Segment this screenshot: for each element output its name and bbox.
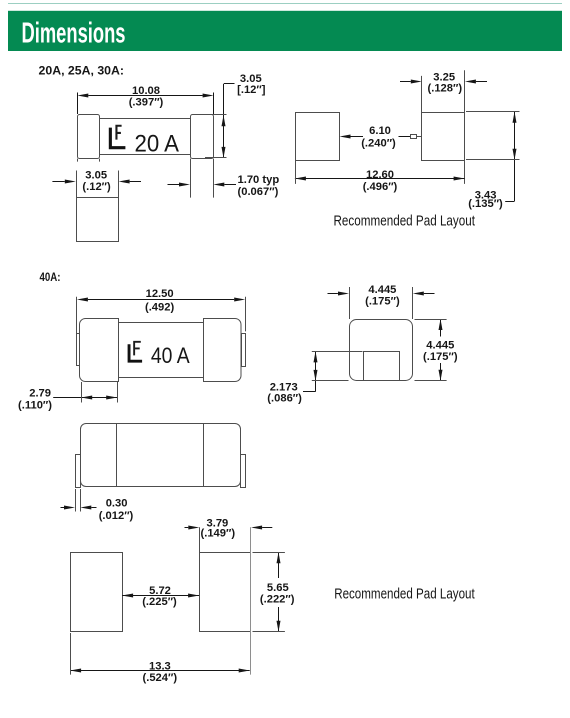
logo LF on 40A fuse bbox=[128, 341, 143, 363]
dimension 3.43 vertical bbox=[505, 112, 516, 202]
side view left tab bbox=[76, 455, 81, 488]
green title bar bbox=[8, 11, 562, 51]
svg-text:5.65: 5.65 bbox=[267, 582, 289, 594]
svg-text:(.524″): (.524″) bbox=[143, 672, 178, 684]
dimension 10.08 (.397) line bbox=[77, 94, 213, 98]
svg-text:2.173: 2.173 bbox=[270, 381, 298, 393]
svg-text:Recommended Pad Layout: Recommended Pad Layout bbox=[334, 586, 475, 603]
svg-text:[.12″]: [.12″] bbox=[237, 84, 266, 96]
svg-text:0.30: 0.30 bbox=[106, 498, 128, 510]
extension lines for 3.43 bbox=[466, 111, 520, 113]
svg-text:2.79: 2.79 bbox=[29, 388, 51, 400]
svg-text:1.70 typ: 1.70 typ bbox=[238, 174, 280, 186]
svg-text:4.445: 4.445 bbox=[368, 284, 396, 296]
svg-text:3.25: 3.25 bbox=[433, 71, 455, 83]
svg-text:13.3: 13.3 bbox=[149, 661, 171, 673]
dimension 12.50 line bbox=[77, 298, 245, 302]
side view right cap line bbox=[203, 423, 205, 486]
dimension 0.30 arrows bbox=[61, 506, 97, 510]
fuse 40A body bbox=[119, 323, 204, 378]
dimension 1.70 typ arrows bbox=[168, 183, 237, 187]
fuse 40A left tab bbox=[77, 334, 81, 366]
svg-text:40 A: 40 A bbox=[151, 343, 190, 368]
svg-text:Recommended Pad Layout: Recommended Pad Layout bbox=[334, 212, 476, 229]
svg-text:(.496″): (.496″) bbox=[363, 181, 398, 193]
dimension 13.3 line bbox=[70, 669, 250, 673]
extension lines for 1.70 bbox=[190, 159, 192, 198]
right pad right extension long bbox=[464, 70, 466, 184]
dimension 3.25 arrows bbox=[400, 80, 487, 84]
svg-text:(.110″): (.110″) bbox=[18, 400, 52, 412]
svg-text:3.05: 3.05 bbox=[85, 169, 107, 181]
svg-text:(.175″): (.175″) bbox=[365, 295, 400, 307]
fuse 40A left cap bbox=[80, 319, 119, 382]
fuse 20A right cap bbox=[191, 115, 214, 159]
extension lines 2.173 bbox=[312, 351, 363, 353]
fuse 40A right cap bbox=[204, 319, 242, 382]
svg-text:(.12″): (.12″) bbox=[82, 181, 111, 193]
svg-text:12.50: 12.50 bbox=[146, 288, 174, 300]
square pad 4.445 bbox=[350, 320, 413, 381]
dimension 2.173 vertical bbox=[303, 351, 318, 391]
extension lines for 10.08 bbox=[77, 93, 79, 115]
svg-text:(.149″): (.149″) bbox=[201, 528, 236, 540]
svg-text:(.240″): (.240″) bbox=[361, 138, 396, 150]
side view right tab bbox=[241, 455, 246, 488]
extension lines 4.445 top bbox=[349, 287, 351, 319]
dimension 5.65 vertical bbox=[277, 552, 281, 632]
extension lines 4.445 right bbox=[415, 319, 447, 321]
pad layout right pad bbox=[422, 113, 465, 161]
bottom layout right pad bbox=[200, 553, 251, 632]
fuse 20A left cap bbox=[78, 115, 100, 159]
svg-text:20 A: 20 A bbox=[135, 130, 180, 157]
extension lines 5.65 bbox=[253, 552, 285, 554]
extension lines for 2.79 bbox=[81, 382, 83, 403]
dimension 3.05 lower-left arrows bbox=[52, 180, 141, 184]
svg-text:(.135″): (.135″) bbox=[468, 198, 503, 210]
dimension 3.05 right vertical bbox=[222, 84, 235, 158]
extension line 3.79 left bbox=[199, 527, 201, 552]
svg-text:(.175″): (.175″) bbox=[423, 351, 458, 363]
dimension 2.79 arrows bbox=[53, 396, 117, 400]
dimension 6.10 between pads bbox=[340, 135, 422, 139]
svg-text:(.086″): (.086″) bbox=[267, 393, 302, 405]
pad under 20A fuse bbox=[77, 198, 119, 242]
side view left cap line bbox=[116, 423, 118, 486]
svg-text:10.08: 10.08 bbox=[132, 85, 160, 97]
dimension 5.72 arrows bbox=[122, 594, 199, 598]
extension line left pad bottom bbox=[295, 161, 297, 184]
svg-text:(.012″): (.012″) bbox=[99, 510, 134, 522]
svg-text:(.225″): (.225″) bbox=[142, 596, 177, 608]
svg-text:20A, 25A, 30A:: 20A, 25A, 30A: bbox=[39, 64, 124, 77]
fuse 40A right tab bbox=[242, 334, 246, 367]
fuse 20A body bbox=[100, 119, 191, 155]
logo LF on 20A fuse bbox=[109, 125, 126, 150]
svg-text:(.222″): (.222″) bbox=[260, 593, 295, 605]
svg-text:Dimensions: Dimensions bbox=[22, 18, 126, 50]
inner pad 2.173 rect bbox=[364, 352, 400, 381]
extension lines for 3.05 lower bbox=[76, 171, 78, 198]
svg-text:4.445: 4.445 bbox=[426, 339, 454, 351]
svg-text:(0.067″): (0.067″) bbox=[238, 186, 279, 198]
bottom layout left pad bbox=[71, 553, 123, 632]
right pad left extension up bbox=[421, 76, 423, 112]
extension line left of 12.50 bbox=[76, 297, 78, 366]
svg-text:(.492): (.492) bbox=[145, 301, 174, 313]
svg-text:(.397″): (.397″) bbox=[129, 96, 164, 108]
side view fuse body bbox=[81, 424, 241, 487]
svg-text:3.05: 3.05 bbox=[240, 73, 262, 85]
dimension 12.60 line bbox=[295, 177, 465, 181]
svg-text:(.128″): (.128″) bbox=[428, 83, 463, 95]
left cap side stubs bbox=[77, 159, 79, 162]
pad layout left pad bbox=[296, 113, 340, 161]
extension lines 0.30 bbox=[75, 489, 77, 512]
dimension 4.445 right vertical bbox=[439, 319, 443, 381]
dimension 3.79 arrows bbox=[185, 526, 273, 530]
extension lines for 3.05 right bbox=[205, 114, 227, 116]
svg-text:6.10: 6.10 bbox=[369, 125, 391, 137]
svg-text:40A:: 40A: bbox=[40, 270, 61, 284]
right pad long right extension bbox=[250, 527, 252, 674]
top rule line bbox=[8, 3, 562, 5]
dimension 4.445 top arrows bbox=[328, 292, 435, 296]
svg-text:12.60: 12.60 bbox=[366, 169, 394, 181]
extension line 13.3 left bbox=[70, 633, 72, 675]
extension line right of 12.50 bbox=[245, 297, 247, 332]
